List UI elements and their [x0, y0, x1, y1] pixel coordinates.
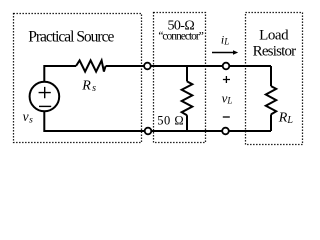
resistor 50 ohm: top lead: [186, 66, 188, 81]
current arrow i_L: [212, 52, 234, 54]
resistor 50 ohm zigzag: [182, 81, 193, 115]
node circle top-right: [223, 63, 230, 70]
voltage source vs circle: [30, 82, 60, 112]
svg-text:Resistor: Resistor: [253, 44, 297, 60]
dashed box: 50-ohm connector: [154, 13, 206, 143]
node circle bottom-left: [145, 128, 152, 135]
dashed box: Practical Source: [14, 14, 142, 143]
svg-text:50 Ω: 50 Ω: [157, 114, 184, 128]
resistor R_L: bottom lead: [270, 114, 272, 131]
svg-text:Practical Source: Practical Source: [28, 28, 114, 45]
svg-text:“connector”: “connector”: [158, 31, 203, 43]
resistor R_L zigzag: [266, 86, 276, 114]
minus sign v_L: [223, 116, 230, 118]
plus sign v_L: [223, 76, 230, 83]
minus sign in source: [39, 105, 51, 107]
resistor R_L: top lead: [270, 66, 272, 86]
node circle top-left: [144, 63, 151, 70]
svg-text:Load: Load: [259, 28, 289, 44]
resistor 50 ohm: bottom lead: [186, 115, 188, 131]
node circle bottom-right: [222, 128, 229, 135]
resistor R_s zigzag: [76, 60, 106, 71]
wire: bottom wire: [44, 112, 271, 131]
plus sign in source: [39, 87, 51, 98]
dashed box: Load Resistor: [246, 13, 303, 145]
wire: source top lead and top wire to R_L: [44, 66, 271, 81]
